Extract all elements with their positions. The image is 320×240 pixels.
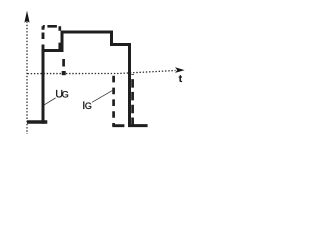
svg-text:G: G bbox=[62, 90, 69, 100]
svg-text:G: G bbox=[85, 101, 92, 111]
